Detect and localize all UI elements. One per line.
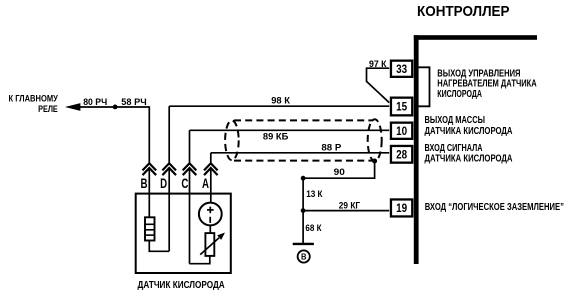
wire 97 К from pin 33 to pin 15 — [367, 68, 390, 102]
svg-text:КИСЛОРОДА: КИСЛОРОДА — [437, 89, 482, 100]
wire 80РЧ/58РЧ to main relay — [65, 103, 149, 111]
svg-text:A: A — [202, 176, 209, 191]
connector B — [141, 163, 157, 191]
svg-text:28: 28 — [396, 150, 408, 162]
bracket grouping pins 33 and 15 — [419, 67, 430, 106]
wire variable resistor bottom to C — [190, 256, 210, 264]
wire A down to cell — [210, 169, 212, 203]
label: signal input (pin 28) — [425, 143, 513, 165]
svg-text:ДАТЧИК КИСЛОРОДА: ДАТЧИК КИСЛОРОДА — [138, 280, 225, 291]
svg-text:19: 19 — [396, 203, 407, 215]
label: heater control output (pins 33/15) — [437, 68, 536, 100]
svg-text:13 К: 13 К — [306, 189, 322, 200]
svg-text:ВХОД СИГНАЛА: ВХОД СИГНАЛА — [425, 143, 483, 154]
svg-text:29 КГ: 29 КГ — [339, 200, 361, 211]
connector C — [181, 163, 196, 191]
wire B to heater — [148, 169, 150, 218]
shield drain junction dot — [372, 159, 377, 164]
wire 13 К / 68 К vertical to ground — [302, 178, 304, 244]
svg-text:58 РЧ: 58 РЧ — [121, 97, 147, 108]
svg-text:ДАТЧИКА КИСЛОРОДА: ДАТЧИКА КИСЛОРОДА — [425, 154, 513, 165]
pin 19 — [391, 199, 412, 216]
svg-text:ДАТЧИКА КИСЛОРОДА: ДАТЧИКА КИСЛОРОДА — [425, 126, 513, 137]
svg-text:88 Р: 88 Р — [321, 143, 342, 154]
variable resistor (sensing element) — [200, 233, 225, 256]
svg-text:33: 33 — [396, 64, 407, 76]
shield (dashed oval) around 89КБ and 88Р wires — [225, 119, 382, 161]
junction dot wire 90 / 13 К — [301, 176, 306, 181]
pin 10 — [391, 123, 412, 139]
svg-text:98 К: 98 К — [271, 95, 290, 106]
wire 89 КБ from C to pin 10 — [190, 130, 390, 163]
svg-text:C: C — [181, 176, 188, 191]
svg-text:РЕЛЕ: РЕЛЕ — [38, 104, 58, 115]
sensor galvanic cell (+/-) — [199, 203, 222, 226]
svg-text:15: 15 — [396, 102, 408, 114]
junction dot 29 КГ branch — [301, 208, 306, 213]
svg-text:68 К: 68 К — [305, 223, 321, 234]
pin 15 — [391, 98, 412, 116]
heater resistor R — [145, 217, 155, 240]
svg-text:D: D — [160, 176, 167, 191]
svg-text:97 К: 97 К — [369, 59, 387, 70]
node B (circled ground point В) — [298, 250, 310, 262]
label: mass output (pin 10) — [425, 115, 513, 137]
label К ГЛАВНОМУ РЕЛЕ — [9, 94, 58, 115]
wire 98 К from D to pin 15 — [169, 106, 389, 163]
connector D — [160, 163, 176, 191]
svg-text:ВЫХОД МАССЫ: ВЫХОД МАССЫ — [425, 115, 486, 126]
svg-text:КОНТРОЛЛЕР: КОНТРОЛЛЕР — [417, 3, 510, 20]
svg-text:B: B — [141, 176, 148, 191]
wire 88 Р from A to pin 28 — [211, 153, 389, 163]
svg-text:90: 90 — [334, 167, 345, 178]
pin 33 — [391, 61, 412, 77]
svg-text:10: 10 — [396, 126, 407, 138]
wire D down into sensor — [168, 169, 170, 252]
junction splice dot on 58РЧ wire — [113, 105, 118, 110]
wire 90 from shield to ground branch — [303, 161, 375, 178]
svg-text:80 РЧ: 80 РЧ — [83, 97, 107, 108]
wire cell to variable resistor — [209, 225, 211, 233]
svg-text:89 КБ: 89 КБ — [263, 132, 289, 143]
svg-text:В: В — [301, 252, 307, 262]
oxygen sensor box — [136, 194, 231, 273]
controller boundary (thick edge) — [414, 35, 537, 264]
wire 29 КГ to pin 19 — [303, 210, 389, 212]
wire C down into sensor — [189, 169, 191, 264]
ground bar — [293, 243, 314, 245]
connector A — [202, 163, 218, 191]
svg-text:ВХОД “ЛОГИЧЕСКОЕ ЗАЗЕМЛЕНИЕ”: ВХОД “ЛОГИЧЕСКОЕ ЗАЗЕМЛЕНИЕ” — [425, 202, 564, 213]
wire heater bottom to D — [149, 241, 169, 252]
pin 28 — [391, 146, 412, 163]
wire B vertical — [148, 106, 150, 163]
